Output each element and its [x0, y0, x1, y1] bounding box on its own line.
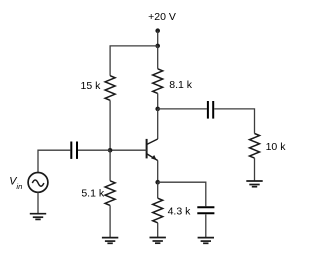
- wire input cap to base node: [78, 149, 110, 151]
- ground under R5: [150, 238, 166, 244]
- ground under R4: [246, 181, 262, 187]
- svg-text:10 k: 10 k: [266, 141, 287, 153]
- resistor R3 5.1 k: [105, 181, 115, 206]
- wire emitter node to R5 top: [157, 182, 159, 198]
- wire source bottom to ground: [37, 192, 39, 213]
- capacitor C1 input coupling: [71, 142, 77, 159]
- wire R1 bottom to base node: [109, 100, 111, 150]
- ground under C3: [198, 238, 214, 244]
- svg-text:5.1 k: 5.1 k: [81, 187, 105, 199]
- resistor R1 15 k: [105, 76, 115, 101]
- wire collector node to output capacitor: [158, 108, 207, 110]
- wire VCC terminal to supply junction: [157, 31, 159, 46]
- wire base node to R3 top: [109, 150, 111, 181]
- junction emitter node: [155, 180, 160, 185]
- junction supply node: [155, 44, 160, 49]
- wire source to input cap: [38, 150, 70, 172]
- transistor Q1 collector lead: [147, 139, 158, 144]
- wire R2 bottom to collector node: [157, 93, 159, 109]
- wire R4 bottom to ground: [254, 158, 256, 181]
- transistor Q1 emitter lead with arrow: [147, 154, 158, 161]
- wire R3 bottom to ground: [109, 205, 111, 237]
- source V1 Vin circle: [28, 173, 48, 193]
- wire collector node down to transistor collector: [157, 109, 159, 139]
- capacitor C2 output coupling: [208, 101, 213, 119]
- capacitor C3 emitter bypass: [197, 207, 214, 213]
- svg-text:8.1 k: 8.1 k: [169, 79, 193, 91]
- source V1 sine symbol: [32, 180, 44, 186]
- resistor R2 8.1 k: [153, 69, 163, 94]
- svg-text:15 k: 15 k: [81, 80, 102, 92]
- wire bypass capacitor to ground: [205, 214, 207, 237]
- svg-text:4.3 k: 4.3 k: [168, 205, 192, 217]
- wire R5 bottom to ground: [157, 223, 159, 238]
- wire supply junction to R2 top: [157, 46, 159, 69]
- svg-text:+20 V: +20 V: [148, 11, 176, 23]
- ground under R3: [102, 238, 118, 244]
- wire base node to Q1 base: [110, 149, 147, 151]
- wire supply junction to R 15k top: [110, 46, 158, 76]
- wire emitter node to bypass capacitor: [158, 182, 206, 206]
- transistor Q1 base bar: [146, 139, 148, 159]
- wire Q1 emitter down to emitter node: [157, 160, 159, 182]
- resistor R4 10 k: [250, 134, 260, 159]
- resistor R5 4.3 k: [153, 198, 163, 223]
- node VCC terminal: [155, 28, 160, 33]
- wire output capacitor to output corner and down to R4: [214, 109, 254, 134]
- junction base node: [108, 148, 113, 153]
- ground under V1: [30, 214, 46, 220]
- junction collector node: [155, 107, 160, 112]
